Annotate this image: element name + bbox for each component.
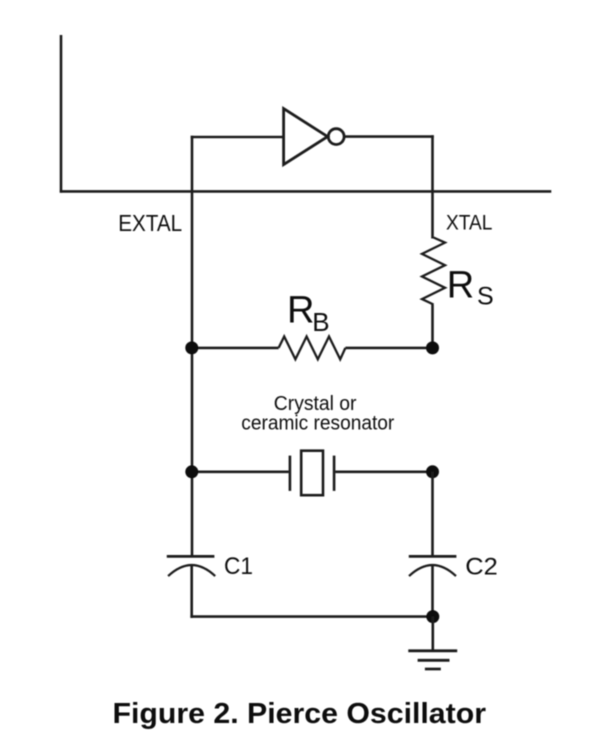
wire: inverter output xyxy=(344,135,434,138)
svg-text:C2: C2 xyxy=(465,553,498,580)
wire: ground lead xyxy=(431,617,434,651)
label RS xyxy=(447,265,494,311)
svg-text:C1: C1 xyxy=(224,553,253,580)
wire: XTAL vertical to C2 xyxy=(431,472,434,555)
svg-text:R: R xyxy=(287,289,314,331)
svg-text:B: B xyxy=(312,307,329,337)
wire: EXTAL vertical net xyxy=(191,136,194,556)
ground xyxy=(408,651,457,669)
label: crystal note xyxy=(241,392,394,435)
junction: XTAL / crystal xyxy=(426,465,439,478)
wire: RB right segment xyxy=(345,347,433,350)
svg-text:XTAL: XTAL xyxy=(446,211,492,235)
label RB xyxy=(287,289,330,337)
svg-text:EXTAL: EXTAL xyxy=(118,210,182,236)
junction: XTAL / RB xyxy=(426,341,439,354)
svg-text:ceramic resonator: ceramic resonator xyxy=(241,412,394,435)
wire: crystal left lead xyxy=(191,470,289,473)
wire: crystal right lead xyxy=(335,470,434,473)
crystal Y1 (ceramic resonator) xyxy=(290,451,334,496)
capacitor C2 xyxy=(409,556,457,576)
junction: bottom rail / ground xyxy=(426,610,439,623)
wire: RB left segment xyxy=(191,347,279,350)
wire: bottom rail xyxy=(190,615,433,618)
resistor RB xyxy=(279,337,346,360)
resistor RS xyxy=(422,238,445,305)
junction: EXTAL / RB xyxy=(185,341,198,354)
wire: left border vertical segment xyxy=(60,35,63,193)
junction: EXTAL / crystal xyxy=(185,465,198,478)
svg-text:Figure 2. Pierce Oscillator: Figure 2. Pierce Oscillator xyxy=(113,698,487,730)
wire: top horizontal rail xyxy=(60,190,552,193)
wire: inverter input xyxy=(191,136,284,139)
wire: RS to RB junction xyxy=(431,305,434,351)
capacitor C1 xyxy=(167,556,215,576)
wire: XTAL vertical net upper xyxy=(431,135,434,238)
svg-text:S: S xyxy=(477,282,494,310)
wire: C1 bottom lead xyxy=(190,566,193,618)
inverter U1 xyxy=(284,109,345,165)
wire: C2 bottom lead xyxy=(431,566,434,617)
svg-text:R: R xyxy=(447,265,474,307)
